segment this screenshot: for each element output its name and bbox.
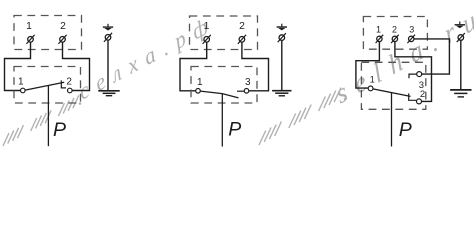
switch box (dashed) S1 lower — [14, 67, 81, 104]
terminal 1 S2 — [203, 35, 211, 44]
chassis arrow symbol S1 — [103, 24, 113, 31]
svg-text:P: P — [53, 119, 66, 141]
wire terminal1 to contact1 S1 — [5, 42, 31, 90]
switch blade S3 — [373, 89, 411, 97]
svg-text:2: 2 — [239, 21, 245, 32]
actuator rod S1 — [47, 85, 49, 146]
svg-text:2: 2 — [60, 21, 66, 32]
terminal 2 S3 — [391, 35, 399, 43]
terminal 1 S3 — [376, 35, 384, 43]
svg-text:2: 2 — [66, 76, 72, 87]
chassis arrow symbol S3 — [455, 22, 465, 29]
svg-text:1: 1 — [370, 75, 375, 85]
ground terminal S2 — [278, 33, 286, 42]
wire terminal2 to contact2 S3 — [395, 42, 432, 102]
wire ground terminal S1 — [107, 40, 109, 90]
terminal 2 S1 — [58, 35, 66, 44]
wire terminal2 to contact3 S2 — [242, 42, 269, 91]
terminal block box (dashed) S2 top — [190, 16, 258, 50]
contact 2 S3 — [417, 99, 422, 104]
fixed contact stop S3 contact 2 — [409, 93, 417, 100]
wire terminal1 to contact1 S2 — [180, 42, 207, 91]
svg-text:3: 3 — [409, 24, 414, 34]
wire ground terminal S3 — [460, 40, 462, 89]
wire terminal1 to contact1 S3 — [356, 42, 380, 89]
wire ground terminal S2 — [281, 41, 283, 91]
svg-text:1: 1 — [26, 21, 32, 32]
ground terminal S3 — [457, 33, 465, 42]
switch box (dashed) S3 lower — [361, 62, 425, 109]
actuator rod S2 — [221, 94, 223, 147]
ground terminal S1 — [104, 33, 112, 42]
contact 3 S3 — [417, 72, 422, 77]
svg-text:2: 2 — [420, 89, 425, 100]
svg-text:1: 1 — [376, 24, 381, 34]
terminal block box (dashed) S1 top — [14, 16, 82, 50]
actuator rod S3 — [391, 93, 393, 147]
contact 1 S1 — [21, 88, 26, 93]
watermark script elha.ru diagonal right — [332, 0, 474, 110]
svg-text:1: 1 — [204, 21, 210, 32]
watermark dot row A — [79, 102, 82, 105]
switch box (dashed) S2 lower — [191, 67, 257, 104]
watermark script selhoza.rf diagonal left — [76, 9, 219, 105]
contact 3 lead and hook S3 — [409, 74, 417, 78]
watermark WWW zigzag bottom-left — [3, 95, 79, 146]
switch blade S1 — [25, 82, 64, 90]
contact 1 S2 — [196, 89, 201, 94]
watermark WWW zigzag bottom-middle — [259, 88, 341, 145]
terminal 2 S2 — [238, 35, 246, 44]
terminal block box (dashed) S3 top — [363, 17, 427, 50]
fixed contact stop S1 — [61, 80, 66, 88]
fixed contact lead S2 — [237, 90, 244, 92]
earth ground S1 — [98, 91, 119, 96]
svg-text:1: 1 — [18, 76, 24, 87]
earth ground S3 — [450, 90, 471, 97]
watermark dot row B — [344, 98, 347, 101]
terminal 1 S1 — [26, 35, 34, 44]
switch blade S2 — [200, 91, 238, 98]
contact 1 S3 — [368, 86, 373, 91]
terminal 3 S3 — [407, 35, 415, 43]
svg-text:P: P — [399, 119, 412, 141]
wire terminal2 to contact2 S1 — [63, 42, 90, 90]
chassis arrow symbol S2 — [277, 24, 287, 31]
wire terminal3 to contact3 S3 — [414, 39, 450, 74]
svg-text:3: 3 — [245, 77, 251, 88]
svg-text:1: 1 — [197, 77, 203, 88]
contact 3 S2 — [244, 89, 249, 94]
earth ground S2 — [272, 91, 291, 96]
svg-text:2: 2 — [392, 24, 397, 34]
svg-text:P: P — [228, 118, 241, 140]
contact 2 S1 — [68, 88, 73, 93]
